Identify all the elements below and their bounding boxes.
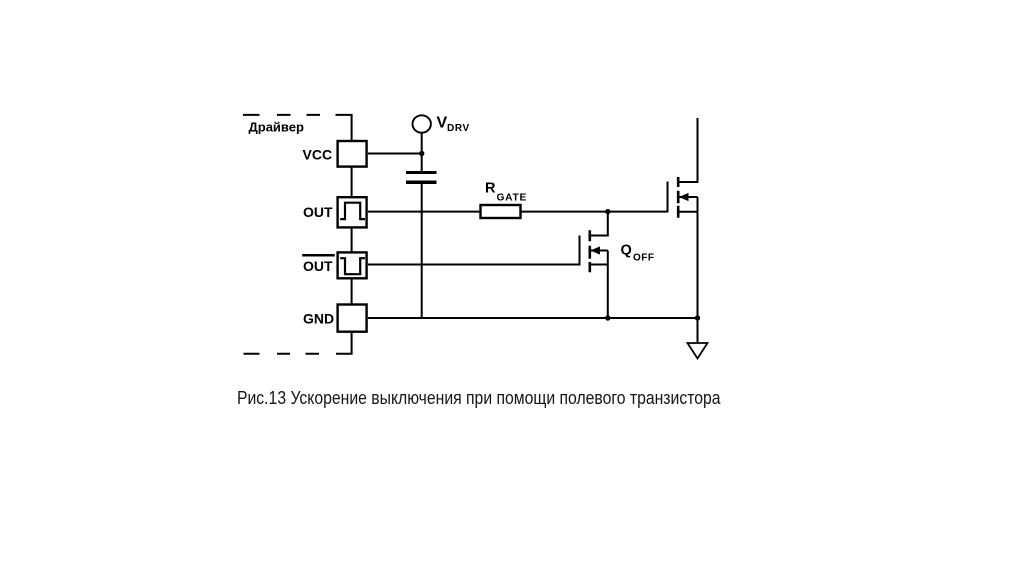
pin box GND [338, 305, 367, 332]
supply circle VDRV [413, 115, 431, 132]
capacitor C1 bottom plate [406, 181, 437, 185]
svg-text:OUT: OUT [303, 258, 333, 274]
wire OUT-bar to gate of QOFF [368, 264, 579, 266]
ground symbol [688, 343, 708, 359]
ground rail wire [368, 317, 698, 319]
svg-text:Драйвер: Драйвер [249, 120, 304, 135]
wire VCC to node [368, 153, 422, 155]
pin box OUT-bar [338, 252, 367, 278]
label OUT-bar overline [302, 254, 335, 257]
node dot Q1 source/ground [695, 315, 700, 320]
transistor Q1 body arrow [679, 193, 689, 201]
svg-text:Q: Q [621, 243, 632, 259]
pin box VCC [338, 141, 367, 167]
transistor QOFF body wire [590, 250, 608, 252]
wire ground rail to ground symbol [697, 318, 699, 343]
wire node to capacitor [421, 154, 423, 172]
driver dashed outline bottom [244, 332, 352, 354]
caption Рис.13 [237, 388, 721, 409]
svg-text:DRV: DRV [447, 123, 470, 134]
wire Q1 source to ground rail [697, 197, 699, 318]
transistor Q1 body wire [678, 196, 697, 198]
transistor QOFF drain wire [590, 212, 608, 236]
wire capacitor to ground rail [421, 184, 423, 318]
svg-text:OUT: OUT [303, 204, 333, 220]
svg-text:OFF: OFF [633, 253, 655, 264]
node dot QOFF source/ground [605, 315, 610, 320]
node dot VCC/VDRV [419, 151, 424, 156]
pin box OUT [338, 197, 367, 227]
transistor QOFF channel segments [588, 230, 591, 272]
wire VDRV to node [421, 133, 423, 154]
inverted pulse symbol in OUT-bar box [340, 258, 365, 274]
svg-text:GATE: GATE [497, 192, 528, 203]
transistor Q1 gate bar [667, 182, 669, 213]
node dot gate net [605, 209, 610, 214]
svg-text:V: V [437, 115, 448, 132]
svg-text:VCC: VCC [303, 147, 333, 163]
wire pin stubs between boxes [351, 167, 353, 305]
driver dashed outline top [243, 115, 352, 142]
resistor R_GATE [481, 205, 521, 218]
transistor Q1 source wire [678, 211, 697, 213]
transistor QOFF body arrow [591, 246, 601, 254]
transistor QOFF gate bar [579, 236, 581, 266]
wire QOFF to ground rail [607, 251, 609, 319]
svg-text:R: R [485, 181, 496, 197]
pulse symbol in OUT box [340, 203, 365, 219]
transistor QOFF source wire [590, 264, 608, 266]
transistor Q1 channel segments [677, 177, 680, 218]
transistor Q1 drain wire [678, 118, 697, 182]
capacitor C1 top plate [406, 171, 437, 174]
svg-text:GND: GND [303, 311, 334, 327]
wire OUT to resistor [368, 211, 481, 213]
wire resistor to gate of Q1 [521, 211, 667, 213]
